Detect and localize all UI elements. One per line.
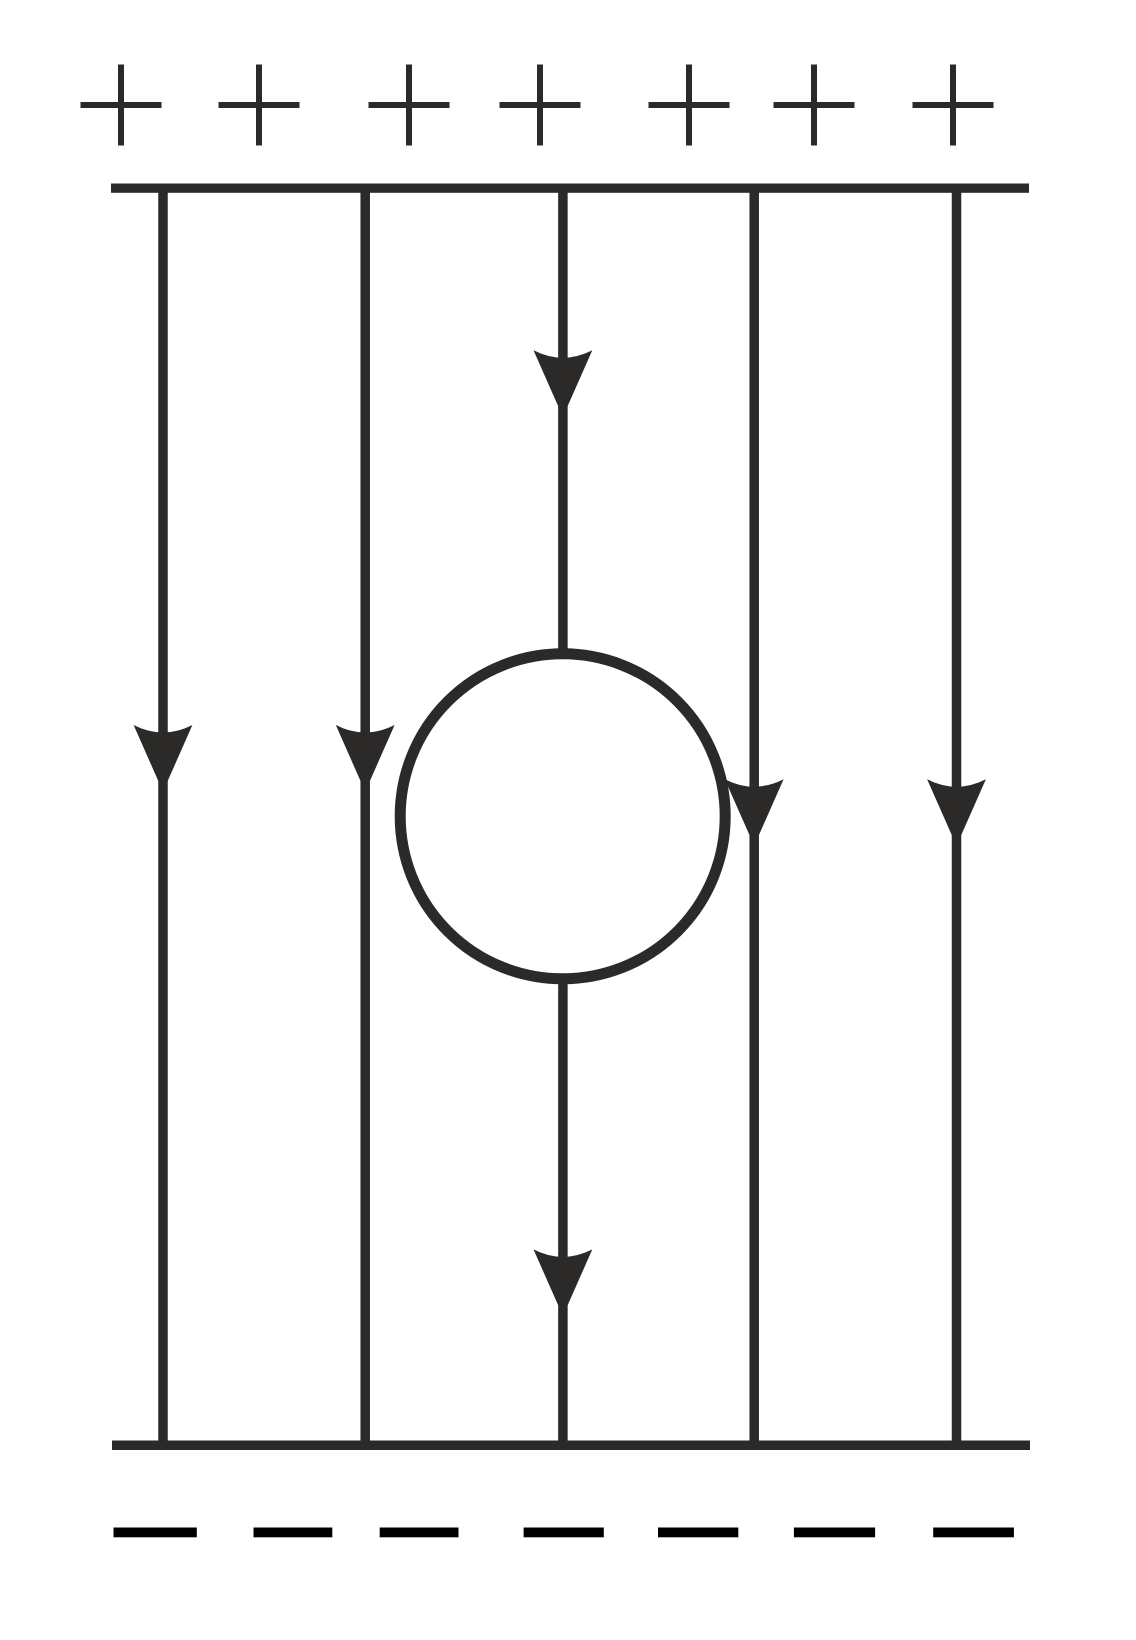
plus charge 7	[913, 65, 994, 146]
plus charge 4	[500, 65, 581, 146]
negative charge dash 1	[114, 1528, 197, 1538]
negative charge dash 6	[794, 1528, 875, 1538]
arrowhead on field line 3 lower	[534, 1249, 593, 1316]
negative charge dash 7	[933, 1528, 1014, 1538]
negative charge dash 5	[658, 1528, 738, 1538]
field line 2	[360, 188, 370, 1445]
plus charge 1	[81, 65, 162, 146]
negative charge dash 4	[524, 1528, 604, 1538]
arrowhead on field line 4	[725, 779, 784, 846]
field line 3 lower segment	[558, 976, 568, 1445]
conducting sphere	[400, 654, 725, 979]
field line 1	[158, 188, 168, 1445]
negative charge dash 3	[380, 1528, 459, 1538]
negative charge dash 2	[254, 1528, 333, 1538]
plus charge 2	[219, 65, 300, 146]
plus charge 3	[369, 65, 450, 146]
plus charge 6	[774, 65, 855, 146]
field line 4	[749, 188, 759, 1445]
arrowhead on field line 1	[134, 725, 193, 792]
arrowhead on field line 5	[927, 779, 986, 846]
field line 3 upper segment	[558, 188, 568, 655]
arrowhead on field line 3 upper	[534, 350, 593, 417]
arrowhead on field line 2	[336, 725, 395, 792]
field line 5	[952, 188, 962, 1445]
plus charge 5	[649, 65, 730, 146]
bottom plate	[112, 1441, 1030, 1451]
top plate	[111, 184, 1029, 193]
